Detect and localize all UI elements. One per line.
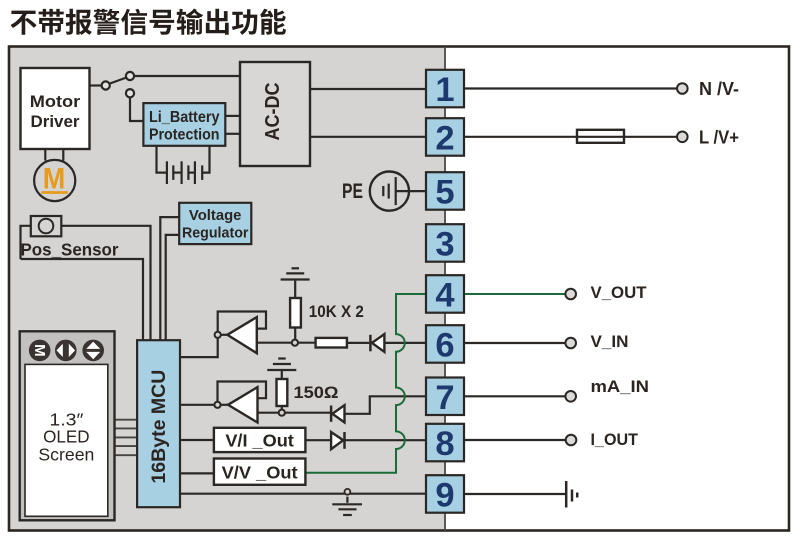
svg-text:Voltage: Voltage xyxy=(189,208,242,224)
svg-text:mA_IN: mA_IN xyxy=(591,378,650,396)
svg-text:M: M xyxy=(31,344,48,357)
svg-text:V_OUT: V_OUT xyxy=(591,284,647,302)
svg-text:L /V+: L /V+ xyxy=(699,128,739,148)
svg-text:Regulator: Regulator xyxy=(182,226,249,242)
svg-text:5: 5 xyxy=(435,174,454,212)
svg-text:7: 7 xyxy=(435,379,454,417)
svg-text:PE: PE xyxy=(342,180,363,203)
svg-text:2: 2 xyxy=(435,120,454,158)
svg-text:9: 9 xyxy=(435,477,454,515)
svg-text:Motor: Motor xyxy=(30,92,81,111)
svg-text:4: 4 xyxy=(435,277,454,315)
svg-text:16Byte MCU: 16Byte MCU xyxy=(149,370,170,484)
svg-text:8: 8 xyxy=(435,425,454,463)
svg-text:V/V _Out: V/V _Out xyxy=(222,463,298,483)
svg-text:3: 3 xyxy=(435,226,454,264)
svg-text:1: 1 xyxy=(435,71,454,109)
svg-text:I_OUT: I_OUT xyxy=(591,431,639,449)
svg-text:Pos_Sensor: Pos_Sensor xyxy=(21,240,119,260)
svg-text:150Ω: 150Ω xyxy=(294,384,339,402)
svg-text:N /V-: N /V- xyxy=(699,79,739,99)
svg-text:Protection: Protection xyxy=(149,127,220,144)
svg-text:M: M xyxy=(43,162,66,195)
svg-text:Driver: Driver xyxy=(31,112,80,131)
svg-text:OLED: OLED xyxy=(43,427,90,447)
svg-text:V_IN: V_IN xyxy=(591,333,629,351)
svg-text:Li_Battery: Li_Battery xyxy=(149,109,220,126)
svg-text:Screen: Screen xyxy=(38,445,94,465)
svg-text:10K X 2: 10K X 2 xyxy=(309,303,364,321)
svg-text:V/I _Out: V/I _Out xyxy=(225,431,294,451)
svg-text:6: 6 xyxy=(435,327,454,365)
svg-text:AC-DC: AC-DC xyxy=(262,83,284,141)
